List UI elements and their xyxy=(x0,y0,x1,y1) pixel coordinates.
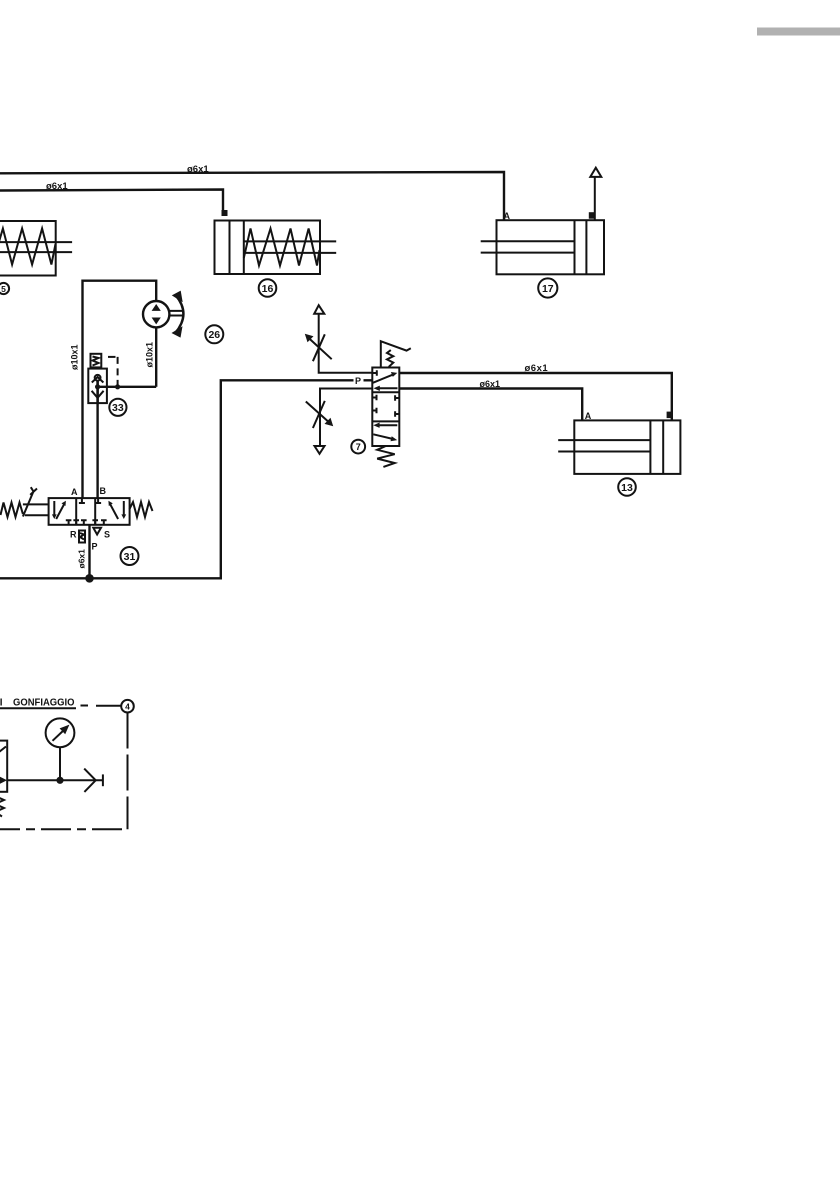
svg-text:ø10x1: ø10x1 xyxy=(145,342,155,368)
svg-text:5: 5 xyxy=(1,284,6,294)
svg-text:P: P xyxy=(355,376,361,386)
svg-text:16: 16 xyxy=(262,283,274,295)
svg-text:13: 13 xyxy=(621,482,633,494)
svg-text:ø6x1: ø6x1 xyxy=(77,549,87,569)
svg-text:7: 7 xyxy=(356,442,361,452)
svg-text:ø10x1: ø10x1 xyxy=(70,344,80,370)
svg-text:ø6x1: ø6x1 xyxy=(187,164,209,175)
svg-text:33: 33 xyxy=(112,402,124,414)
svg-text:DI: DI xyxy=(0,698,3,709)
svg-text:ø6x1: ø6x1 xyxy=(480,379,501,389)
svg-text:26: 26 xyxy=(208,329,220,341)
svg-text:R: R xyxy=(70,530,77,540)
svg-text:ø6x1: ø6x1 xyxy=(46,181,68,192)
svg-text:P: P xyxy=(92,542,98,552)
svg-text:A: A xyxy=(71,487,78,497)
svg-text:A: A xyxy=(585,411,592,421)
svg-text:B: B xyxy=(100,486,107,496)
svg-text:S: S xyxy=(104,530,110,540)
svg-text:4: 4 xyxy=(125,702,130,712)
svg-text:ø6x1: ø6x1 xyxy=(525,363,549,374)
svg-text:17: 17 xyxy=(542,283,554,295)
svg-text:GONFIAGGIO: GONFIAGGIO xyxy=(13,698,75,709)
svg-text:31: 31 xyxy=(124,551,136,563)
svg-text:A: A xyxy=(504,211,511,221)
